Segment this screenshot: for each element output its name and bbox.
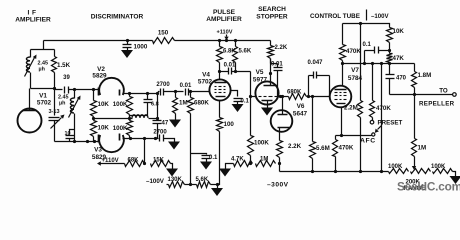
tube V5 grid dashes (259, 96, 262, 98)
svg-text:2700: 2700 (153, 130, 167, 136)
svg-text:V6: V6 (297, 103, 305, 110)
svg-text:2.2M: 2.2M (344, 105, 358, 112)
resistor 4.7K (234, 161, 253, 167)
resistor 1M row (256, 161, 276, 167)
svg-text:10K: 10K (393, 28, 405, 35)
wire -100V feed (343, 23, 388, 25)
svg-text:0.1: 0.1 (241, 99, 250, 105)
junction 2.2M bottom (359, 170, 362, 173)
wire preset line (372, 64, 374, 101)
resistor 100K V5 grid (248, 136, 254, 156)
resistor 1M repeller (412, 139, 417, 157)
wire 470K afc bottom (335, 157, 337, 172)
junction 1M top (174, 90, 177, 93)
junction V6 plate top (281, 95, 284, 98)
tube V4 cathode bar (216, 96, 226, 98)
wire 0.01 to corner (232, 71, 251, 73)
resistor 5.6K row (197, 182, 211, 188)
wire 10K upper leads (93, 90, 95, 101)
junction V5 grid/100K (249, 95, 252, 98)
tube V2 envelope arc (99, 78, 124, 95)
ground 0.1 left (200, 162, 212, 170)
svg-text:0.01: 0.01 (180, 83, 192, 89)
svg-text:I F: I F (28, 10, 37, 17)
wire 100K V5 bottom (250, 156, 252, 164)
svg-text:680K: 680K (287, 90, 302, 96)
ground V5 cathode (261, 108, 273, 116)
wire -300V bus (280, 171, 389, 173)
wire 680K top lead (190, 92, 192, 98)
svg-text:1.5K: 1.5K (57, 62, 71, 69)
svg-text:5.6K: 5.6K (239, 49, 252, 55)
capacitor 3-13 trimmer (49, 118, 60, 121)
junction plate/preset line (371, 62, 374, 65)
svg-text:V1: V1 (39, 93, 47, 100)
wire 0.01 to V4 grid (189, 91, 210, 93)
wiper arrow 200K (412, 157, 416, 170)
tube V7 grid dashes (335, 92, 338, 94)
svg-text:PULSE: PULSE (213, 9, 236, 16)
wire 0.047 right corner (329, 76, 331, 97)
wire cathode row (336, 135, 372, 137)
junction V7 plate node (341, 62, 344, 65)
wire -300V corner (279, 164, 281, 172)
tube V3 plate bar (119, 134, 121, 141)
junction 10K upper top (92, 88, 95, 91)
wire V3 out to ground (164, 139, 175, 142)
resistor 68K (125, 161, 145, 167)
svg-text:5647: 5647 (293, 111, 308, 118)
wire V6 plate riser (282, 97, 284, 111)
tube V6 cathode bar (278, 127, 291, 129)
wire V5 plate riser (270, 59, 272, 86)
junction 5.6M bottom (311, 170, 314, 173)
svg-text:680K: 680K (194, 100, 209, 107)
wire 10K to 47K (389, 43, 391, 54)
wire 10pf branch top (70, 130, 75, 135)
junction plate/0.1 corner (363, 62, 366, 65)
svg-text:10K: 10K (98, 101, 110, 108)
capacitor 6.8 (144, 94, 153, 103)
wire 5.6K top (235, 41, 237, 47)
wire switch line (381, 64, 383, 172)
tube V5 envelope (255, 81, 278, 104)
wire 100K lower bottom (129, 136, 131, 139)
junction V3 in a (86, 140, 89, 143)
arrow +110V down (224, 35, 228, 41)
wire tank top bar (31, 49, 55, 51)
wire 2700 to 0.01 (164, 91, 184, 93)
wire tank riser (43, 41, 45, 50)
junction V5 plate node (269, 72, 272, 75)
svg-text:–100V: –100V (146, 178, 165, 185)
svg-text:SeekIC.com: SeekIC.com (397, 180, 460, 194)
junction plate/47K (388, 62, 391, 65)
tube V6 plate tee (282, 111, 284, 115)
capacitor 39 (65, 87, 69, 94)
junction 5.6M top (311, 95, 314, 98)
wire 6.8K to V4 plate (219, 63, 221, 80)
wire 2.2K V6 bottom (279, 158, 281, 164)
resistor 47K (387, 54, 393, 63)
svg-text:100K: 100K (113, 101, 128, 108)
ground 4.7K row (219, 169, 231, 177)
svg-text:2.2K: 2.2K (288, 143, 302, 150)
wire 5.6K row to node (211, 184, 218, 186)
svg-text:µh: µh (39, 67, 45, 73)
wire disc left vertical lower (54, 121, 56, 142)
capacitor 0.1 V4 cathode (234, 99, 243, 105)
svg-text:1000: 1000 (134, 44, 148, 51)
tube V1 envelope (18, 109, 42, 133)
potentiometer 200K range (411, 169, 431, 174)
wire 2.2M line mid (360, 64, 362, 101)
wire chain to ground (453, 172, 456, 177)
wire 6.8 bottom jog (130, 103, 148, 119)
capacitor 470 (386, 64, 395, 95)
resistor 15K (151, 161, 171, 167)
ground V3 output (168, 142, 180, 150)
capacitor 0.047 (309, 72, 330, 79)
svg-text:470: 470 (396, 76, 407, 82)
wire 0.1 branch (191, 154, 207, 155)
resistor 2.2K plate V5 (268, 46, 274, 59)
svg-text:V4: V4 (202, 72, 210, 79)
wire 47K bottom (389, 63, 391, 64)
junction 100K lower bottom (129, 137, 132, 140)
junction plate/switch line (380, 62, 383, 65)
resistor 470K afc (333, 140, 338, 157)
tube V3 cathode bar (98, 135, 100, 143)
wire V6 cathode down (279, 128, 281, 141)
junction 10K lower bottom (93, 140, 96, 143)
svg-text:15K: 15K (153, 158, 165, 164)
junction tank output (53, 87, 56, 90)
svg-text:5702: 5702 (198, 79, 213, 86)
wire +110V rail right segment (175, 40, 271, 42)
wire 100K upper top (129, 94, 131, 97)
svg-text:470K: 470K (376, 105, 391, 112)
terminal PRESET (370, 120, 374, 124)
svg-text:5702: 5702 (37, 100, 52, 107)
resistor 100K bottom right (433, 169, 453, 174)
svg-text:1M: 1M (418, 145, 427, 152)
wire 680K down (190, 114, 192, 185)
wire V7 plate riser (342, 64, 344, 86)
wire +110V rail left segment (44, 40, 153, 42)
svg-text:130K: 130K (168, 177, 183, 183)
junction V7 cathode node (340, 134, 343, 137)
capacitor 0.1 gnd left (202, 156, 211, 162)
svg-text:2700: 2700 (156, 82, 170, 88)
wire tank to 39pf (55, 89, 63, 90)
capacitor 0.01 coupling V4 (220, 68, 232, 75)
svg-text:0.1: 0.1 (209, 155, 218, 161)
wire V5 grid left (251, 96, 256, 98)
capacitor 0.01 search (274, 64, 283, 97)
wire 10K lower bottom (93, 137, 95, 142)
svg-text:V3: V3 (94, 147, 102, 154)
junction 47pf line top (156, 92, 159, 95)
svg-text:AMPLIFIER: AMPLIFIER (15, 17, 51, 24)
junction 100K upper top (128, 92, 131, 95)
svg-text:5977: 5977 (253, 77, 268, 84)
junction 680K grid top (189, 90, 192, 93)
wire 1.8M bottom (414, 88, 416, 95)
resistor 10K upper (91, 101, 97, 117)
resistor 1.5K (52, 57, 57, 73)
junction 0.01 bottom (279, 95, 282, 98)
junction -300V node (278, 162, 281, 165)
wire 0.01 branch top (271, 63, 278, 65)
wire 10K upper bottom (93, 117, 95, 119)
wire V3 cathode lead (55, 141, 99, 143)
svg-text:+110V: +110V (102, 158, 119, 164)
junction 47 line mid (156, 117, 159, 120)
svg-text:3-13: 3-13 (49, 109, 60, 115)
wire 6.8K top (219, 41, 221, 47)
junction coil drop (73, 88, 76, 91)
wire 5.6M top lead (312, 97, 314, 142)
wire V2 output (123, 92, 160, 94)
wire 100K lower leads (129, 119, 131, 121)
wire 2.2K to plate node (270, 59, 272, 64)
junction V4 plate node (218, 70, 221, 73)
svg-text:100K: 100K (254, 140, 269, 147)
svg-text:V5: V5 (256, 69, 264, 76)
wire 68K riser (144, 139, 146, 164)
resistor 6.8K (217, 47, 223, 63)
svg-text:STOPPER: STOPPER (256, 14, 288, 21)
resistor 1.8M (412, 72, 417, 88)
junction 47 line bottom (154, 137, 157, 140)
resistor 2.2M (358, 101, 363, 118)
wire bridge mid (94, 118, 133, 120)
svg-text:µh: µh (59, 101, 65, 107)
wire V4 cathode down (219, 101, 221, 118)
junction 0.047 left (307, 95, 310, 98)
svg-text:100K: 100K (113, 125, 128, 132)
svg-text:TO: TO (439, 88, 448, 95)
junction disc coil bottom (73, 140, 76, 143)
resistor 2.2K V6 cathode (277, 141, 283, 158)
tube V5 cathode bar (262, 100, 273, 102)
wire 5.6M bottom lead (312, 159, 314, 172)
svg-text:0.01: 0.01 (271, 62, 283, 68)
terminal repeller (453, 93, 457, 97)
svg-text:150: 150 (158, 30, 169, 37)
tube V4 grid dashes (215, 86, 217, 88)
svg-text:1M: 1M (179, 100, 188, 107)
capacitor 2700 series (161, 89, 164, 96)
resistor 470K plate (340, 45, 346, 61)
svg-text:5.6M: 5.6M (316, 145, 330, 152)
wire 130K to 5.6K (185, 184, 197, 186)
wire disc left vertical upper (54, 90, 56, 116)
resistor 5.6M (310, 142, 316, 159)
wire +110V stub (105, 163, 125, 165)
ground below 1000pf (121, 50, 133, 58)
svg-text:5829: 5829 (92, 73, 107, 80)
junction V4 cathode bottom (216, 183, 219, 186)
wire 470K plate bottom (342, 61, 344, 64)
svg-text:1.8M: 1.8M (418, 72, 432, 79)
resistor 130K (169, 182, 185, 188)
tube V2 plate bar (119, 90, 121, 96)
junction 470K bottom (334, 170, 337, 173)
svg-text:100K: 100K (388, 164, 403, 170)
wire coupling corner down (250, 72, 252, 97)
arrow +110V IF row (97, 161, 105, 165)
tube V6 envelope (271, 110, 293, 132)
terminal AFC contact (372, 133, 375, 136)
wire 470K plate top (342, 24, 344, 45)
svg-text:–300V: –300V (267, 182, 289, 189)
wire 1M top lead (175, 92, 177, 98)
wire 0.1 left corner (364, 51, 366, 64)
junction mid right (128, 117, 131, 120)
junction mid left (92, 117, 95, 120)
wire 39pf to V2 (69, 89, 99, 91)
svg-text:4.7K: 4.7K (231, 157, 244, 163)
junction 68K/15K (143, 162, 146, 165)
tube V3 envelope arc (99, 135, 124, 152)
svg-text:47K: 47K (393, 55, 405, 62)
tube V7 plate bar (335, 89, 347, 91)
ground 0.1 V4 cathode (232, 104, 244, 112)
svg-text:2.2K: 2.2K (275, 45, 288, 51)
svg-text:REPELLER: REPELLER (419, 101, 455, 108)
wire 5.6K bottom lead (235, 63, 237, 72)
wire 0.047 left corner (308, 76, 310, 97)
separator bar (366, 10, 368, 21)
svg-text:39: 39 (63, 75, 70, 81)
wire V3 plate lead (123, 138, 159, 140)
wire 100K V5 down (250, 97, 252, 136)
wire repeller down (414, 95, 416, 139)
ground 15K row (166, 169, 178, 177)
wire -100V corner (388, 24, 390, 28)
resistor 10K control (387, 28, 393, 43)
capacitor 47 (153, 119, 162, 139)
tube V7 cathode bar (337, 103, 346, 105)
wire 4.7K left corner (226, 164, 234, 169)
svg-text:CONTROL TUBE: CONTROL TUBE (310, 13, 360, 20)
wire bridge coil to 47 line (149, 118, 158, 120)
switch arm AFC (375, 126, 382, 133)
tube V4 plate bar (215, 82, 227, 84)
arrow 3-13 adjust (51, 115, 65, 129)
inductor bridge coil (132, 115, 148, 118)
junction repeller node (413, 93, 416, 96)
wire 100K upper bottom (129, 115, 131, 119)
tube V2 cathode bar (98, 88, 100, 96)
svg-text:1M: 1M (260, 157, 268, 163)
junction 100K line bottom (249, 162, 252, 165)
resistor 5.6K plate (233, 47, 238, 63)
junction 5.6K bottom (234, 70, 237, 73)
resistor 100K lower (127, 121, 133, 136)
wire 680K to V7 grid (307, 96, 330, 98)
inductor 2.45uH IF (26, 50, 30, 89)
svg-text:0.047: 0.047 (307, 60, 323, 66)
svg-text:10K: 10K (98, 125, 110, 132)
svg-text:–100V: –100V (371, 13, 390, 20)
capacitor 0.1 control (365, 47, 390, 54)
ground bottom right (450, 176, 460, 184)
svg-text:AMPLIFIER: AMPLIFIER (206, 16, 242, 23)
wire preset stub (372, 118, 374, 121)
wire V1 plate riser (29, 89, 31, 111)
svg-text:47: 47 (162, 121, 169, 127)
wire V4 cathode right (231, 91, 238, 97)
svg-text:100: 100 (224, 121, 235, 128)
wire 1.5K leads (54, 50, 56, 57)
junction rail/6.8K (218, 39, 221, 42)
wire 10K lower leads (93, 119, 95, 121)
resistor 100K bottom left (389, 169, 409, 174)
junction 680K line bottom (189, 183, 192, 186)
svg-text:AFC: AFC (360, 138, 376, 145)
capacitor 10 (66, 136, 75, 142)
svg-text:0.1: 0.1 (363, 42, 372, 48)
ground 1M (169, 114, 181, 128)
capacitor 2700 shunt (160, 135, 164, 142)
tube V5 plate bar (264, 85, 278, 87)
wire 47 line upper (157, 94, 159, 119)
wire 2.2M bottom (360, 118, 362, 172)
wire 2.2M line upper (360, 24, 362, 64)
resistor 680K grid (188, 98, 194, 114)
ground V4 cathode (211, 185, 223, 197)
svg-text:V7: V7 (351, 67, 359, 74)
resistor 10K lower (91, 121, 97, 137)
svg-text:100K: 100K (431, 164, 446, 170)
svg-text:DISCRIMINATOR: DISCRIMINATOR (91, 14, 144, 21)
wire -100V stub (167, 184, 169, 186)
capacitor 1000 to ground (123, 41, 132, 51)
wire 100 to bottom (218, 132, 220, 185)
svg-text:470K: 470K (339, 145, 354, 152)
capacitor 0.01 coupling disc (186, 89, 189, 96)
resistor 150 ohm (153, 38, 175, 44)
resistor 680K coupling (289, 94, 307, 100)
tube V7 envelope (330, 86, 352, 108)
junction 6.8pf top (146, 92, 149, 95)
wire V7 plate bus (343, 63, 415, 65)
inductor 2.45uH disc (70, 90, 74, 142)
wire 1.5K bottom lead (54, 73, 56, 89)
junction 68K riser top (143, 137, 146, 140)
wire V5 grid right (279, 96, 289, 98)
resistor 100 cathode (217, 118, 223, 132)
tube V1 plate bar (24, 110, 36, 112)
wire 2.2K plate top (270, 41, 272, 46)
wire V7 cathode down (341, 108, 343, 136)
svg-text:10: 10 (65, 131, 71, 137)
svg-text:SEARCH: SEARCH (258, 6, 286, 13)
svg-text:68K: 68K (128, 158, 140, 164)
arrow IF coil adjust (25, 55, 37, 77)
wire V5 cathode stub (267, 101, 269, 108)
resistor 470K preset (370, 101, 375, 118)
resistor 100K upper (127, 97, 133, 115)
junction -100V/2.2M line (359, 22, 362, 25)
wire repeller bottom bar (390, 94, 415, 96)
wire 15K to ground (171, 164, 173, 169)
junction switch line bottom (380, 170, 383, 173)
wire to repeller (415, 94, 453, 96)
